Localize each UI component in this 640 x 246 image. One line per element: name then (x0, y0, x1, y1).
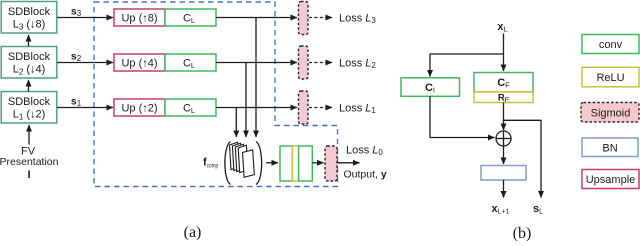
Up (x8) box (114, 9, 165, 26)
svg-text:L1 (↓2): L1 (↓2) (13, 109, 46, 122)
wire CL row3 to sigmoid (216, 107, 297, 109)
svg-text:ReLU: ReLU (596, 72, 624, 84)
svg-text:Presentation: Presentation (0, 156, 59, 168)
wire branch row2 down to fcomp (245, 63, 247, 138)
wire conv block to sigmoid L0 (312, 162, 323, 164)
conv strip 2 (299, 146, 313, 181)
svg-text:SDBlock: SDBlock (8, 96, 51, 108)
arrow L2 to L3 (28, 35, 30, 47)
wire s2: SDBlock L2 to Up box (57, 62, 113, 64)
wire fcomp to conv block (266, 162, 278, 164)
conv CL box row2 (165, 54, 216, 71)
arrow input I to L1 (28, 125, 30, 145)
wire s1: SDBlock L1 to Up box (57, 107, 113, 109)
Up (x2) box (114, 99, 165, 116)
conv CL box row3 (165, 99, 216, 116)
svg-text:(b): (b) (513, 225, 532, 241)
legend Upsample box (582, 170, 639, 189)
legend Sigmoid box (581, 103, 639, 123)
BN box (481, 166, 526, 181)
sigmoid box L0 (325, 146, 337, 181)
sigmoid box row2 (299, 46, 309, 79)
wire s3: SDBlock L3 to Up box (57, 17, 113, 19)
wire CL row2 to sigmoid (216, 62, 297, 64)
wire branch row1 down to fcomp (255, 18, 257, 138)
SDBlock L1 box (1, 92, 57, 124)
sigmoid box row1 (299, 2, 309, 35)
fcomp right bracket (256, 142, 262, 185)
svg-text:Up (↑4): Up (↑4) (121, 58, 157, 70)
svg-text:L2 (↓4): L2 (↓4) (13, 64, 46, 77)
conv CL box row1 (165, 9, 216, 26)
ReLU RF box (474, 92, 533, 104)
svg-text:(a): (a) (184, 224, 202, 241)
Up (x4) box (114, 54, 165, 71)
wire CL row1 to sigmoid (216, 17, 297, 19)
fcomp left bracket (225, 142, 231, 185)
legend BN box (582, 138, 638, 157)
ReLU strip (292, 146, 298, 181)
SDBlock L3 box (1, 2, 57, 34)
adder circled plus (496, 131, 511, 146)
blue dashed region boundary (panel a) (94, 2, 338, 187)
dashed wire to Loss L2 (309, 62, 332, 64)
wire branch to CI (430, 54, 504, 77)
legend ReLU box (582, 67, 639, 87)
svg-text:Loss L0: Loss L0 (346, 145, 383, 158)
wire branch to sL (504, 120, 542, 197)
wire BN to xL+1 (503, 180, 505, 198)
svg-text:Loss L2: Loss L2 (339, 58, 376, 71)
svg-text:Loss L1: Loss L1 (339, 103, 376, 116)
wire RF down to adder (503, 103, 505, 131)
fcomp feature-map stack (230, 142, 255, 177)
svg-text:SDBlock: SDBlock (8, 51, 51, 63)
conv CF box (474, 73, 533, 93)
svg-text:Sigmoid: Sigmoid (591, 108, 631, 120)
svg-text:L3 (↓8): L3 (↓8) (13, 19, 46, 32)
wire xL down to CF (503, 34, 505, 72)
sigmoid box row3 (299, 91, 309, 124)
svg-text:conv: conv (599, 39, 623, 51)
FV Presentation input label (0, 146, 59, 182)
legend conv box (582, 35, 639, 54)
output wire (337, 162, 360, 164)
conv CI box (401, 78, 460, 97)
svg-text:SDBlock: SDBlock (8, 6, 51, 18)
svg-text:Loss L3: Loss L3 (339, 13, 376, 26)
svg-text:Output, y: Output, y (344, 169, 387, 181)
svg-text:Upsample: Upsample (586, 174, 636, 186)
wire adder to BN (503, 146, 505, 164)
wire CI down and right to adder (430, 96, 495, 137)
svg-text:I: I (27, 169, 30, 181)
dashed wire to Loss L3 (309, 17, 332, 19)
svg-text:Up (↑8): Up (↑8) (121, 13, 157, 25)
arrow L1 to L2 (28, 80, 30, 92)
conv strip 1 (280, 146, 292, 181)
svg-text:Up (↑2): Up (↑2) (121, 103, 157, 115)
wire branch row3 down to fcomp (235, 108, 237, 138)
SDBlock L2 box (1, 47, 57, 79)
dashed wire to Loss L1 (309, 107, 332, 109)
svg-text:BN: BN (602, 143, 617, 155)
